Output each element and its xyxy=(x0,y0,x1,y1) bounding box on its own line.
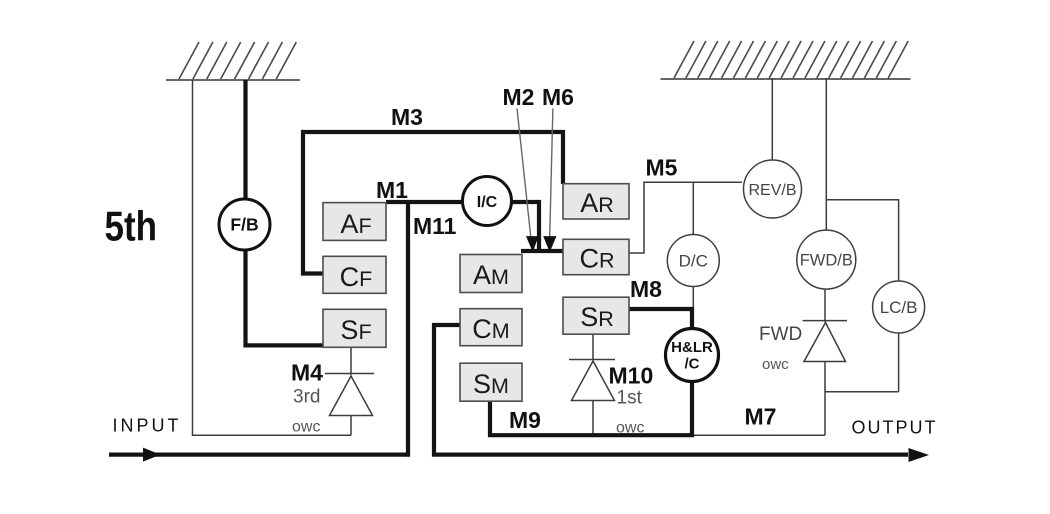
svg-text:owc: owc xyxy=(292,419,320,436)
svg-text:SF: SF xyxy=(340,315,371,345)
svg-text:F/B: F/B xyxy=(230,215,258,235)
svg-text:OUTPUT: OUTPUT xyxy=(852,418,938,438)
svg-text:owc: owc xyxy=(762,356,789,373)
svg-text:M2: M2 xyxy=(503,84,535,110)
svg-text:FWD/B: FWD/B xyxy=(800,252,853,270)
svg-text:FWD: FWD xyxy=(759,324,802,345)
svg-text:CM: CM xyxy=(472,314,509,344)
svg-text:M10: M10 xyxy=(609,363,654,389)
svg-text:REV/B: REV/B xyxy=(748,182,796,199)
svg-text:I/C: I/C xyxy=(477,194,498,211)
svg-text:M11: M11 xyxy=(413,213,457,239)
svg-text:LC/B: LC/B xyxy=(880,298,918,317)
svg-text:M5: M5 xyxy=(646,155,678,181)
svg-text:owc: owc xyxy=(616,420,644,437)
svg-text:M6: M6 xyxy=(542,84,574,110)
svg-text:1st: 1st xyxy=(617,388,643,409)
svg-text:/C: /C xyxy=(685,356,700,373)
svg-text:SM: SM xyxy=(473,369,509,399)
svg-text:3rd: 3rd xyxy=(293,387,320,408)
svg-text:M1: M1 xyxy=(376,177,408,203)
svg-text:M9: M9 xyxy=(509,407,541,433)
svg-text:CR: CR xyxy=(579,244,614,274)
svg-text:M3: M3 xyxy=(391,104,423,130)
svg-text:5th: 5th xyxy=(105,203,158,250)
svg-text:SR: SR xyxy=(580,302,614,332)
svg-text:M8: M8 xyxy=(630,276,662,302)
svg-text:AF: AF xyxy=(340,209,371,239)
svg-text:AM: AM xyxy=(473,260,509,290)
svg-text:H&LR: H&LR xyxy=(671,339,713,356)
svg-text:INPUT: INPUT xyxy=(113,416,182,436)
svg-text:CF: CF xyxy=(340,262,373,292)
svg-text:AR: AR xyxy=(580,188,614,218)
svg-text:M7: M7 xyxy=(745,404,777,430)
svg-text:M4: M4 xyxy=(291,360,323,386)
svg-text:D/C: D/C xyxy=(679,252,708,271)
